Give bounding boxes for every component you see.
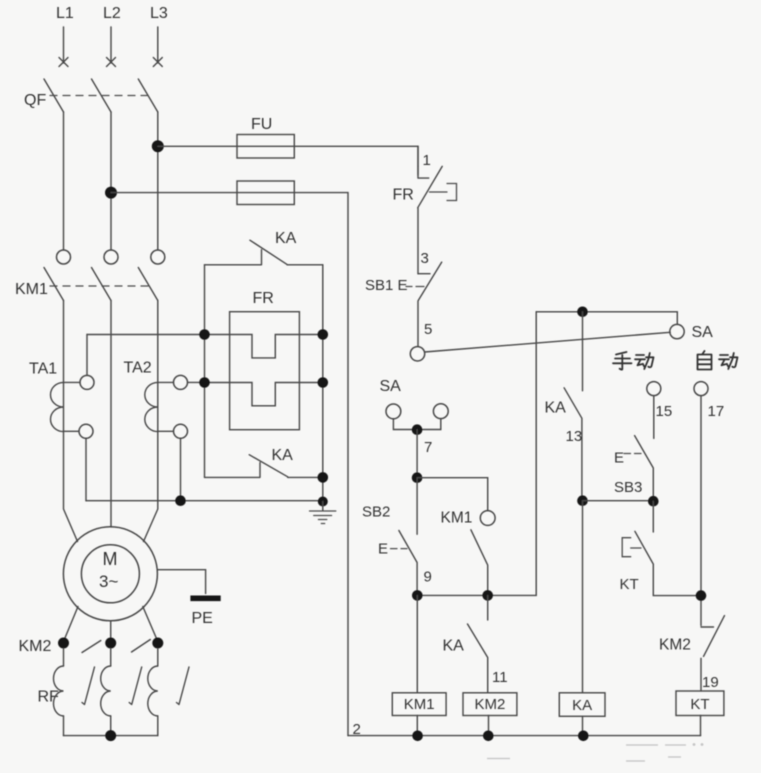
- svg-text:2: 2: [353, 721, 361, 738]
- svg-text:KT: KT: [620, 576, 639, 593]
- svg-text:KM2: KM2: [19, 638, 52, 655]
- svg-text:E: E: [378, 541, 388, 558]
- svg-text:15: 15: [656, 403, 673, 420]
- svg-text:E: E: [614, 450, 624, 467]
- svg-text:17: 17: [708, 403, 725, 420]
- svg-text:KA: KA: [272, 447, 294, 464]
- svg-text:FR: FR: [253, 290, 274, 307]
- svg-text:13: 13: [566, 428, 583, 445]
- svg-text:SA: SA: [692, 324, 714, 341]
- svg-text:PE: PE: [192, 610, 213, 627]
- svg-text:KM1: KM1: [441, 510, 473, 527]
- svg-text:FU: FU: [251, 116, 272, 133]
- svg-text:KM1: KM1: [15, 281, 48, 298]
- svg-text:KT: KT: [690, 696, 709, 713]
- svg-text:KM2: KM2: [659, 637, 691, 654]
- svg-text:KA: KA: [443, 638, 465, 655]
- svg-text:KM2: KM2: [475, 696, 506, 713]
- svg-text:11: 11: [492, 669, 508, 686]
- svg-text:RF: RF: [38, 689, 60, 706]
- svg-text:SB3: SB3: [614, 479, 642, 496]
- svg-text:KA: KA: [275, 230, 297, 247]
- svg-text:L3: L3: [150, 5, 168, 22]
- svg-text:3~: 3~: [99, 572, 118, 591]
- svg-text:TA1: TA1: [29, 361, 57, 378]
- svg-text:SB2: SB2: [362, 504, 390, 521]
- svg-text:5: 5: [424, 321, 432, 338]
- svg-text:TA2: TA2: [124, 360, 152, 377]
- svg-text:KM1: KM1: [404, 696, 435, 713]
- svg-text:19: 19: [702, 674, 719, 691]
- svg-text:SB1 E: SB1 E: [365, 277, 408, 294]
- svg-text:L2: L2: [103, 5, 121, 22]
- svg-text:KA: KA: [545, 400, 567, 417]
- svg-text:9: 9: [424, 569, 432, 586]
- svg-text:3: 3: [421, 250, 429, 267]
- svg-text:7: 7: [424, 439, 432, 456]
- svg-text:FR: FR: [393, 187, 414, 204]
- svg-text:L1: L1: [56, 5, 74, 22]
- svg-text:KA: KA: [572, 697, 592, 714]
- svg-text:1: 1: [423, 152, 431, 169]
- svg-text:SA: SA: [380, 378, 402, 395]
- svg-text:QF: QF: [24, 92, 46, 109]
- svg-text:M: M: [103, 549, 118, 569]
